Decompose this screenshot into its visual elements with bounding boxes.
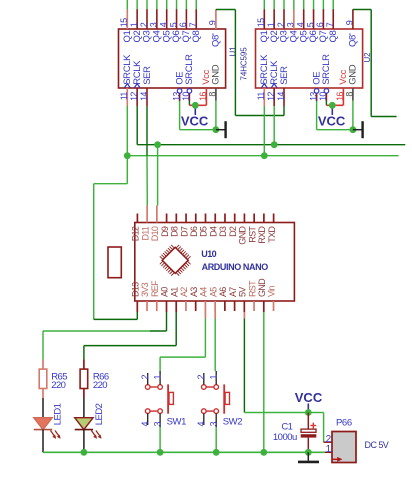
- svg-text:ARDUINO NANO: ARDUINO NANO: [202, 262, 269, 272]
- svg-text:8: 8: [208, 92, 218, 97]
- svg-text:220: 220: [51, 380, 65, 391]
- svg-text:D7: D7: [179, 226, 189, 237]
- svg-text:1: 1: [326, 444, 332, 455]
- svg-text:REF: REF: [150, 280, 160, 297]
- svg-text:GND: GND: [238, 226, 248, 245]
- svg-text:D4: D4: [208, 226, 218, 237]
- svg-text:SW2: SW2: [223, 417, 243, 428]
- svg-text:2: 2: [276, 22, 286, 27]
- svg-text:13: 13: [308, 92, 318, 101]
- svg-text:6: 6: [178, 22, 188, 27]
- svg-text:3: 3: [149, 22, 159, 27]
- svg-text:A1: A1: [169, 287, 179, 297]
- svg-text:U1: U1: [229, 46, 238, 57]
- svg-text:GND: GND: [211, 64, 222, 85]
- svg-text:3V3: 3V3: [140, 282, 150, 297]
- svg-text:7: 7: [188, 22, 198, 27]
- svg-text:15: 15: [256, 18, 266, 27]
- svg-text:3: 3: [152, 422, 162, 427]
- svg-text:4: 4: [296, 22, 306, 27]
- svg-text:D2: D2: [228, 226, 238, 237]
- svg-text:SRCLR: SRCLR: [321, 54, 332, 85]
- svg-text:14: 14: [276, 92, 286, 101]
- svg-text:D9: D9: [160, 226, 170, 237]
- svg-text:Vin: Vin: [267, 286, 277, 297]
- svg-text:4: 4: [196, 422, 206, 427]
- svg-text:VCC: VCC: [181, 114, 209, 129]
- svg-text:D12: D12: [131, 226, 141, 241]
- svg-text:RXD: RXD: [257, 226, 267, 244]
- svg-text:3: 3: [286, 22, 296, 27]
- svg-text:SW1: SW1: [167, 417, 187, 428]
- svg-text:P66: P66: [336, 417, 352, 428]
- svg-text:D3: D3: [218, 226, 228, 237]
- svg-text:220: 220: [93, 380, 107, 391]
- svg-text:5: 5: [168, 22, 178, 27]
- svg-text:GND: GND: [257, 278, 267, 297]
- svg-text:7: 7: [325, 22, 335, 27]
- svg-text:VCC: VCC: [295, 390, 323, 405]
- svg-text:D5: D5: [199, 226, 209, 237]
- svg-text:A3: A3: [189, 287, 199, 297]
- svg-text:LED1: LED1: [53, 403, 64, 425]
- svg-text:12: 12: [266, 92, 276, 101]
- svg-text:10: 10: [318, 92, 328, 101]
- svg-text:11: 11: [119, 92, 129, 101]
- svg-text:8: 8: [345, 92, 355, 97]
- svg-text:SER: SER: [279, 66, 290, 85]
- svg-text:DC 5V: DC 5V: [365, 440, 389, 450]
- svg-text:5: 5: [305, 22, 315, 27]
- svg-text:RST: RST: [247, 280, 257, 297]
- svg-text:16: 16: [335, 92, 345, 101]
- svg-text:A5: A5: [208, 287, 218, 297]
- svg-text:GND: GND: [348, 64, 359, 85]
- svg-text:5V: 5V: [238, 287, 248, 297]
- svg-text:1: 1: [152, 375, 162, 380]
- svg-text:D6: D6: [189, 226, 199, 237]
- svg-text:74HC595: 74HC595: [240, 47, 249, 81]
- svg-text:D11: D11: [140, 226, 150, 240]
- svg-text:6: 6: [315, 22, 325, 27]
- svg-text:LED2: LED2: [94, 403, 105, 425]
- svg-text:2: 2: [140, 375, 150, 380]
- svg-text:A4: A4: [199, 287, 209, 297]
- svg-text:12: 12: [129, 92, 139, 101]
- svg-text:2: 2: [196, 375, 206, 380]
- svg-text:4: 4: [159, 22, 169, 27]
- svg-text:A7: A7: [228, 287, 238, 297]
- svg-text:1: 1: [129, 22, 139, 27]
- svg-text:Q8': Q8': [348, 33, 359, 47]
- svg-text:D13: D13: [131, 282, 141, 297]
- svg-text:Q8': Q8': [211, 33, 222, 47]
- svg-text:SRCLR: SRCLR: [184, 54, 195, 85]
- svg-text:10: 10: [181, 92, 191, 101]
- svg-text:RST: RST: [247, 226, 257, 243]
- svg-text:2: 2: [139, 22, 149, 27]
- svg-text:A0: A0: [160, 287, 170, 297]
- svg-text:TXD: TXD: [267, 226, 277, 243]
- svg-text:1: 1: [266, 22, 276, 27]
- svg-text:4: 4: [140, 422, 150, 427]
- svg-text:VCC: VCC: [318, 114, 346, 129]
- svg-text:U10: U10: [201, 249, 216, 259]
- svg-text:D10: D10: [150, 226, 160, 241]
- svg-text:SER: SER: [142, 66, 153, 85]
- svg-text:U2: U2: [363, 52, 372, 63]
- svg-text:Q8: Q8: [191, 30, 202, 42]
- svg-text:1000u: 1000u: [273, 432, 297, 443]
- svg-text:16: 16: [198, 92, 208, 101]
- svg-text:11: 11: [256, 92, 266, 101]
- svg-text:13: 13: [171, 92, 181, 101]
- svg-text:14: 14: [139, 92, 149, 101]
- svg-text:Q8: Q8: [328, 30, 339, 42]
- svg-text:15: 15: [119, 18, 129, 27]
- svg-text:A2: A2: [179, 287, 189, 297]
- svg-text:A6: A6: [218, 287, 228, 297]
- svg-text:3: 3: [209, 422, 219, 427]
- svg-text:1: 1: [209, 375, 219, 380]
- svg-text:D8: D8: [170, 226, 180, 237]
